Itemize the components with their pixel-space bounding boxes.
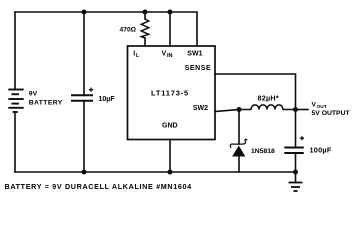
wire SW2 to node A [215,110,239,112]
diode D1 1N5818 schottky [233,147,245,156]
wire node B to VOUT [296,109,309,111]
wire SENSE [215,74,296,110]
battery BT1 9V [8,90,23,113]
svg-text:470Ω: 470Ω [120,27,137,34]
wire C2 top lead [295,110,297,148]
wire C1 bottom lead [83,101,85,172]
svg-text:SW2: SW2 [193,105,208,112]
node battery+ junction [82,10,87,15]
node A junction SW2/diode [237,107,242,112]
svg-text:LT1173-5: LT1173-5 [151,88,189,97]
ground [289,172,303,191]
svg-text:BATTERY: BATTERY [29,100,63,107]
op-amp U1 LT1173-5 [128,46,216,140]
svg-text:BATTERY = 9V DURACELL ALKALINE: BATTERY = 9V DURACELL ALKALINE #MN1604 [5,182,192,191]
wire bottom rail [15,171,296,173]
node C2 bottom junction [293,170,298,175]
node R1 top junction [143,10,148,15]
svg-text:L: L [136,53,139,59]
wire R1 top lead [144,12,146,19]
svg-text:SENSE: SENSE [185,65,211,72]
svg-text:SW1: SW1 [187,51,202,58]
svg-text:V: V [162,51,167,58]
plus sign C1 [89,88,93,92]
node VIN top junction [168,10,173,15]
wire pin GND [169,140,171,173]
svg-text:1N5818: 1N5818 [251,148,275,155]
svg-text:9V: 9V [29,90,38,97]
wire battery bottom lead [14,112,16,172]
svg-text:82µH*: 82µH* [258,93,279,102]
wire battery top lead [14,12,16,90]
svg-text:OUT: OUT [317,104,327,110]
wire C1 top lead [83,12,85,95]
svg-text:IN: IN [167,53,173,59]
schottky cathode bar [230,139,247,147]
wire D1 cathode lead [238,110,240,145]
node C1 bottom junction [82,170,87,175]
wire pin VIN [169,12,171,46]
wire R1 bottom lead / pin IL [144,38,146,46]
wire D1 anode lead [238,156,240,172]
capacitor C2 100uF [284,148,304,154]
resistor R1 470 ohm [141,19,148,38]
capacitor C1 10uF [71,95,93,100]
plus sign C2 [300,136,304,140]
wire top rail [15,12,197,46]
wire C2 bottom lead [295,153,297,172]
svg-text:I: I [133,51,135,58]
svg-text:10µF: 10µF [99,96,116,103]
node GND junction [168,170,173,175]
svg-text:100µF: 100µF [310,145,332,154]
svg-text:5V OUTPUT: 5V OUTPUT [312,110,351,117]
inductor L1 82uH [239,105,296,110]
svg-text:GND: GND [162,123,178,130]
node B junction VOUT [293,107,298,112]
